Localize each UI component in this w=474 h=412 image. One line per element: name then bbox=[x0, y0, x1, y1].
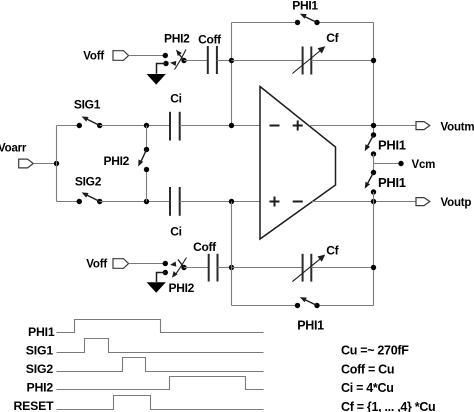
connector Voff (bottom) bbox=[113, 259, 129, 269]
switch SIG2 bbox=[77, 192, 103, 204]
wire PHI2 branch lower segment bbox=[146, 170, 148, 202]
svg-text:Ci = 4*Cu: Ci = 4*Cu bbox=[341, 381, 394, 395]
wire Coff to node (bottom) bbox=[218, 267, 232, 269]
svg-text:SIG1: SIG1 bbox=[74, 98, 101, 112]
node junction Coff/Cf (bottom, input node) bbox=[229, 265, 234, 270]
op-amp U1 (fully differential) bbox=[260, 87, 336, 240]
svg-text:PHI1: PHI1 bbox=[292, 0, 318, 13]
wire Ci to op-amp node (top) bbox=[180, 125, 260, 127]
svg-text:Voarr: Voarr bbox=[0, 143, 27, 155]
svg-text:PHI2: PHI2 bbox=[104, 154, 130, 168]
svg-text:Voutp: Voutp bbox=[441, 197, 472, 209]
switch PHI1 (Vcm top) bbox=[365, 132, 376, 156]
connector Voarr bbox=[19, 159, 34, 168]
node output junction (top) bbox=[371, 123, 376, 128]
svg-text:Cf: Cf bbox=[326, 244, 339, 258]
wire Voff top to switch bbox=[129, 55, 166, 57]
wire pole to Coff (top) bbox=[184, 60, 208, 62]
svg-text:Voff: Voff bbox=[83, 51, 104, 63]
wire input to SIG1 switch bbox=[57, 125, 80, 127]
waveform PHI2 bbox=[57, 377, 264, 390]
wire op-amp output to Voutp row bbox=[312, 201, 416, 203]
wire bottom feedback loop horizontal right segment bbox=[317, 305, 374, 307]
switch PHI2 (top offset) bbox=[163, 50, 187, 70]
connector Voutm bbox=[416, 122, 430, 130]
node output junction (bottom) bbox=[371, 199, 376, 204]
node op-amp input (bottom) bbox=[229, 199, 234, 204]
connector Voutp bbox=[416, 198, 430, 206]
capacitor Cf (top, variable) bbox=[292, 46, 325, 74]
svg-text:PHI1: PHI1 bbox=[28, 325, 55, 339]
node junction Cf/output (top) bbox=[371, 58, 376, 63]
capacitor Ci (bottom) bbox=[170, 187, 180, 216]
svg-text:SIG2: SIG2 bbox=[75, 175, 102, 189]
wire input vertical bbox=[56, 126, 58, 202]
wire Coff to node (top) bbox=[217, 60, 232, 62]
switch PHI2 (bottom offset) bbox=[163, 258, 187, 278]
wire right vertical output node (bottom) bbox=[373, 192, 375, 306]
svg-text:PHI1: PHI1 bbox=[378, 175, 406, 190]
svg-text:PHI1: PHI1 bbox=[378, 138, 406, 153]
connector Voff (top) bbox=[113, 51, 129, 61]
wire PHI2 branch upper segment bbox=[146, 126, 148, 150]
switch PHI1 (Vcm bottom) bbox=[365, 170, 376, 195]
ground (bottom) bbox=[147, 282, 166, 293]
waveform SIG2 bbox=[57, 358, 264, 372]
svg-text:RESET: RESET bbox=[14, 399, 55, 412]
waveform SIG1 bbox=[57, 339, 264, 353]
wire top feedback loop horizontal right segment bbox=[317, 22, 374, 24]
wire Voarr to input junction bbox=[33, 163, 56, 165]
switch PHI1 (top feedback) bbox=[295, 14, 320, 26]
svg-text:SIG1: SIG1 bbox=[26, 344, 54, 358]
wire switch to ground (top) bbox=[157, 64, 167, 74]
wire Vcm stub bbox=[374, 163, 402, 165]
capacitor Coff (bottom) bbox=[209, 254, 218, 282]
wire bottom feedback loop horizontal left segment bbox=[232, 305, 298, 307]
svg-text:PHI1: PHI1 bbox=[297, 319, 324, 333]
node op-amp input (top) bbox=[229, 123, 234, 128]
wire SIG1 to Ci (top row) bbox=[100, 125, 170, 127]
wire switch to ground (bottom) bbox=[157, 273, 166, 283]
node junction Coff/Cf (top, input node) bbox=[229, 58, 234, 63]
wire SIG2 to Ci (bottom row) bbox=[100, 201, 170, 203]
wire op-amp output to Voutm row bbox=[309, 125, 416, 127]
node Vcm terminal bbox=[398, 161, 403, 166]
capacitor Ci (top) bbox=[170, 112, 180, 141]
svg-text:Voutm: Voutm bbox=[441, 122, 474, 134]
waveform PHI1 bbox=[57, 320, 264, 333]
ground (top) bbox=[147, 74, 166, 85]
node input junction bbox=[54, 161, 59, 166]
wire input to SIG2 switch bbox=[57, 201, 80, 203]
node junction Cf/output (bottom) bbox=[371, 265, 376, 270]
svg-text:Cu =~ 270fF: Cu =~ 270fF bbox=[341, 344, 409, 358]
wire Vcm mid segment bbox=[373, 154, 375, 173]
switch PHI2 (mid input) bbox=[138, 147, 149, 172]
wire Cf to output node (top) bbox=[311, 60, 373, 62]
wire left vertical of bottom loop bbox=[231, 202, 233, 306]
svg-text:PHI2: PHI2 bbox=[26, 381, 53, 395]
wire Ci to op-amp node (bottom) bbox=[180, 201, 260, 203]
svg-text:Ci: Ci bbox=[170, 92, 181, 106]
svg-text:Coff: Coff bbox=[193, 240, 217, 254]
svg-text:Ci: Ci bbox=[170, 225, 181, 239]
wire pole to Coff (bottom) bbox=[184, 267, 209, 269]
capacitor Cf (bottom, variable) bbox=[292, 254, 325, 282]
svg-text:SIG2: SIG2 bbox=[26, 362, 54, 376]
wire Cf to output node (bottom) bbox=[311, 267, 373, 269]
wire Voff bottom to switch bbox=[129, 263, 166, 265]
wire node to Cf (top) bbox=[232, 60, 303, 62]
svg-text:Coff: Coff bbox=[198, 33, 222, 47]
node junction PHI2 branch (top) bbox=[144, 123, 149, 128]
wire left vertical of top loop (node to op-amp input) bbox=[231, 23, 233, 126]
svg-text:Cf = {1, ... ,4} *Cu: Cf = {1, ... ,4} *Cu bbox=[341, 400, 435, 412]
wire node to Cf (bottom) bbox=[232, 267, 303, 269]
svg-text:Coff = Cu: Coff = Cu bbox=[341, 362, 394, 376]
svg-text:Cf: Cf bbox=[326, 31, 339, 45]
svg-text:Vcm: Vcm bbox=[412, 159, 436, 171]
waveform RESET bbox=[57, 396, 264, 410]
switch PHI1 (bottom feedback) bbox=[295, 297, 320, 308]
node junction PHI2 branch (bottom) bbox=[144, 199, 149, 204]
wire right vertical output node (top) bbox=[373, 23, 375, 136]
svg-text:PHI2: PHI2 bbox=[164, 32, 190, 46]
svg-text:PHI2: PHI2 bbox=[169, 281, 195, 295]
svg-text:Voff: Voff bbox=[86, 259, 107, 271]
wire top feedback loop horizontal left segment bbox=[232, 22, 298, 24]
switch SIG1 bbox=[77, 116, 103, 128]
capacitor Coff (top) bbox=[208, 46, 217, 74]
